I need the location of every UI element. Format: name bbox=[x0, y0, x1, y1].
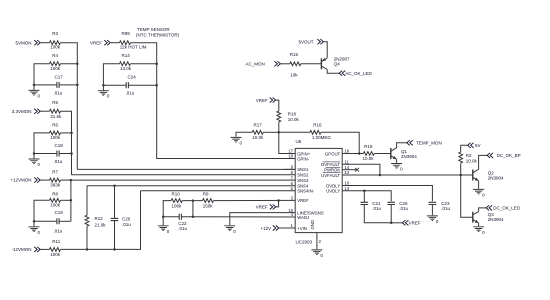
svg-text:VREF: VREF bbox=[90, 40, 102, 45]
node R4/C17/ground junction bbox=[33, 84, 36, 87]
svg-text:TEMP_MON: TEMP_MON bbox=[416, 141, 442, 146]
ground 5VMON block bbox=[29, 90, 40, 95]
transistor Q2 2N3904 bbox=[472, 170, 474, 181]
wire OVDLY pin 10 to C23 bbox=[342, 186, 432, 202]
wire C20 bottom bbox=[114, 221, 116, 250]
node GPOUT/R16/R19 bbox=[358, 152, 361, 155]
svg-text:R9: R9 bbox=[203, 191, 209, 196]
resistor R2 bbox=[459, 152, 463, 163]
svg-text:R12: R12 bbox=[95, 216, 104, 221]
node C17-rail bbox=[76, 84, 79, 87]
svg-text:10.0k: 10.0k bbox=[252, 135, 264, 140]
svg-text:R11: R11 bbox=[52, 239, 60, 244]
wire Q1 collector to TEMP_MON bbox=[397, 143, 407, 148]
ground NTC block bbox=[98, 91, 109, 96]
svg-text:R8: R8 bbox=[52, 192, 58, 197]
svg-text:AC_MON: AC_MON bbox=[246, 62, 265, 67]
svg-text:DC_OK_LED: DC_OK_LED bbox=[493, 206, 521, 211]
wire UVDLY pin 13 bbox=[342, 191, 391, 202]
wire GPOUT node to R19 bbox=[359, 153, 363, 155]
svg-text:.01u: .01u bbox=[54, 90, 63, 95]
ground +12VMON block bbox=[29, 227, 40, 232]
wire R4 left to ground corner bbox=[34, 64, 50, 85]
ground Q1 bbox=[391, 164, 402, 169]
resistor R4 bbox=[50, 62, 61, 66]
svg-text:.01u: .01u bbox=[126, 91, 135, 96]
capacitor C22 bbox=[179, 214, 181, 220]
wire C17 right bbox=[59, 84, 77, 86]
wire +12V to +VIN bbox=[279, 227, 295, 229]
svg-text:2N3904: 2N3904 bbox=[401, 154, 417, 159]
wire Q2 collector to DC_OK_BP bbox=[479, 155, 488, 169]
svg-text:.01u: .01u bbox=[372, 206, 381, 211]
svg-text:10k: 10k bbox=[290, 72, 298, 77]
resistor R8 bbox=[50, 198, 61, 202]
node R12 bottom bbox=[86, 248, 89, 251]
ground 3.3VMON block bbox=[29, 159, 40, 164]
svg-text:UC2903: UC2903 bbox=[296, 240, 313, 245]
svg-text:5V: 5V bbox=[475, 143, 481, 148]
wire C18 left bbox=[34, 153, 57, 155]
capacitor C18 bbox=[57, 151, 59, 157]
node VREF hook bbox=[277, 199, 280, 202]
wire SNS4IN- rail bbox=[141, 190, 296, 192]
wire +12VMON to R7 bbox=[40, 179, 49, 181]
node R10/R9 bbox=[192, 199, 195, 202]
svg-text:5VOUT: 5VOUT bbox=[298, 39, 313, 44]
wire GPOUT stub bbox=[342, 153, 359, 155]
wire 5VMON to R3 bbox=[40, 42, 49, 44]
wire R6 right bbox=[61, 132, 72, 134]
ground R10/C22 bbox=[158, 226, 169, 231]
wire -12VMON to R11 bbox=[40, 248, 49, 250]
wire R10 left down to ground bbox=[163, 201, 171, 226]
svg-text:10.0k: 10.0k bbox=[288, 117, 300, 122]
svg-text:AC_OK_LED: AC_OK_LED bbox=[345, 71, 372, 76]
wire WADJ rail right bbox=[181, 216, 295, 218]
svg-text:R14: R14 bbox=[122, 53, 131, 58]
svg-text:R15: R15 bbox=[290, 52, 299, 57]
node C22 left bbox=[162, 216, 165, 219]
svg-text:VREF: VREF bbox=[256, 98, 268, 103]
svg-text:+12V: +12V bbox=[261, 226, 272, 231]
svg-text:.01u: .01u bbox=[399, 206, 408, 211]
node R14/C24/ground junction bbox=[102, 84, 105, 87]
wire 5V to R2 bbox=[461, 145, 468, 152]
wire R14 left to ground corner bbox=[103, 64, 119, 85]
svg-text:SNS2: SNS2 bbox=[297, 173, 309, 178]
wire R12 bottom bbox=[86, 226, 88, 249]
resistor R18 bbox=[277, 111, 281, 122]
wire R16 to GPOUT node bbox=[321, 132, 359, 153]
wire R11 to SNS4IN- riser bbox=[61, 191, 141, 250]
wire C24 right bbox=[128, 84, 156, 86]
svg-text:100k: 100k bbox=[50, 135, 61, 140]
node OVFAULT/UVFAULT bbox=[379, 174, 382, 177]
wire C20 top bbox=[114, 186, 116, 219]
svg-text:WADJ: WADJ bbox=[297, 215, 309, 220]
wire Q4 collector to AC_OK_LED bbox=[327, 70, 339, 74]
svg-text:10.0k: 10.0k bbox=[363, 156, 375, 161]
svg-text:R6: R6 bbox=[52, 122, 58, 127]
wire VREF rail to port bbox=[391, 222, 402, 224]
wire C25 bottom bbox=[390, 205, 392, 223]
wire R17 right to junction bbox=[263, 131, 279, 133]
port AC_OK_LED bbox=[339, 71, 345, 76]
ground U6 bbox=[311, 250, 322, 255]
ground LINE/SWSNS bbox=[224, 226, 235, 231]
svg-text:GPOUT: GPOUT bbox=[325, 151, 341, 156]
svg-text:31.6k: 31.6k bbox=[50, 114, 62, 119]
svg-text:R16: R16 bbox=[313, 123, 322, 128]
node C20 bottom bbox=[113, 248, 116, 251]
svg-text:SNS3: SNS3 bbox=[297, 178, 309, 183]
svg-text:VREF: VREF bbox=[409, 221, 421, 226]
wire R7 to SNS3 rail / node R7 bbox=[61, 179, 71, 181]
wire UVFAULT pin 12 to Q2 base bbox=[342, 174, 473, 176]
resistor R14 bbox=[120, 62, 131, 66]
wire LINE/SWSNS to ground bbox=[230, 213, 295, 226]
node UVDLY/C21 bbox=[363, 189, 366, 192]
svg-text:13.0k: 13.0k bbox=[120, 66, 132, 71]
node R6-rail bbox=[70, 132, 73, 135]
port TEMP_MON bbox=[407, 140, 413, 145]
svg-text:12k HOT LIM: 12k HOT LIM bbox=[120, 45, 147, 50]
wire base rail down to Q3 bbox=[461, 175, 473, 217]
svg-text:Q4: Q4 bbox=[334, 61, 341, 66]
svg-text:.01u: .01u bbox=[122, 222, 131, 227]
resistor R12 bbox=[85, 215, 89, 226]
svg-text:.01u: .01u bbox=[54, 159, 63, 164]
wire C24 left bbox=[103, 84, 126, 86]
svg-text:U6: U6 bbox=[296, 139, 302, 144]
node R8-rail bbox=[70, 199, 73, 202]
svg-text:.01u: .01u bbox=[54, 228, 63, 233]
node junction-WADJ rail bbox=[192, 216, 195, 219]
svg-text:.01u: .01u bbox=[178, 226, 187, 231]
wire R7 node down to R8 bbox=[70, 180, 72, 200]
node R6/C18/ground junction bbox=[33, 152, 36, 155]
svg-text:(NTC THERMISTOR): (NTC THERMISTOR) bbox=[136, 33, 180, 38]
svg-text:R18: R18 bbox=[288, 111, 297, 116]
port DC_OK_LED bbox=[486, 205, 492, 210]
svg-text:C24: C24 bbox=[128, 75, 137, 80]
wire rail down to C19 bbox=[70, 200, 72, 221]
resistor R3 bbox=[50, 41, 61, 45]
svg-text:TEMP SENSOR: TEMP SENSOR bbox=[137, 27, 170, 32]
node C25-VREF rail bbox=[390, 222, 393, 225]
capacitor C25 bbox=[387, 202, 395, 204]
svg-text:2N3904: 2N3904 bbox=[488, 217, 504, 222]
wire R2 bottom to base rail bbox=[460, 163, 462, 175]
U6 bottom GND pin to ground bbox=[316, 233, 318, 250]
svg-text:100k: 100k bbox=[50, 252, 61, 257]
port 5V bbox=[468, 143, 474, 148]
capacitor C17 bbox=[57, 82, 59, 88]
wire Q2 emitter to ground bbox=[478, 181, 480, 189]
ground stem 3.3VMON block bbox=[33, 154, 35, 159]
svg-text:.01u: .01u bbox=[441, 206, 450, 211]
wire Q3 collector to DC_OK_LED bbox=[479, 208, 487, 212]
wire junction to R16 bbox=[279, 131, 310, 133]
svg-text:R4: R4 bbox=[52, 53, 58, 58]
resistor R7 bbox=[50, 178, 61, 182]
wire R14 right bbox=[131, 63, 157, 65]
svg-text:R19: R19 bbox=[364, 144, 373, 149]
svg-text:C20: C20 bbox=[122, 216, 131, 221]
wire R19 to Q1 base bbox=[374, 153, 391, 155]
wire C18 right bbox=[59, 153, 71, 155]
wire SNS4 rail bbox=[87, 185, 295, 187]
svg-text:SNS4IN-: SNS4IN- bbox=[297, 189, 315, 194]
svg-text:100k: 100k bbox=[50, 202, 61, 207]
node R8/C19/ground junction bbox=[33, 220, 36, 223]
capacitor C23 bbox=[429, 202, 437, 204]
svg-text:R2: R2 bbox=[466, 153, 472, 158]
svg-text:10.0k: 10.0k bbox=[466, 158, 478, 163]
wire Q1 emitter to ground bbox=[396, 159, 398, 163]
capacitor C20 bbox=[111, 218, 119, 220]
wire R12 top to SNS4 rail corner bbox=[86, 186, 88, 216]
capacitor C24 bbox=[126, 82, 128, 88]
svg-text:+12VMON: +12VMON bbox=[10, 178, 31, 183]
node R4-rail bbox=[76, 62, 79, 64]
node C20 top on SNS4 rail bbox=[113, 184, 116, 187]
ground C23 bbox=[427, 216, 438, 221]
svg-text:C18: C18 bbox=[55, 143, 64, 148]
svg-text:3.3VMON: 3.3VMON bbox=[12, 109, 32, 114]
svg-text:UVDLY: UVDLY bbox=[326, 189, 340, 194]
svg-text:21.0k: 21.0k bbox=[95, 222, 107, 227]
svg-text:GPIN-: GPIN- bbox=[297, 156, 310, 161]
port VREF (caps) bbox=[402, 220, 408, 225]
svg-text:12: 12 bbox=[345, 170, 350, 175]
svg-text:R7: R7 bbox=[52, 169, 58, 174]
svg-text:13: 13 bbox=[345, 186, 350, 191]
svg-text:C19: C19 bbox=[55, 210, 64, 215]
svg-text:GND: GND bbox=[310, 220, 315, 230]
IC U6 UC2903 body bbox=[295, 148, 342, 232]
capacitor C21 bbox=[361, 202, 369, 204]
wire AC_MON to R15 bbox=[280, 63, 289, 65]
ground Q2 bbox=[473, 189, 484, 194]
svg-text:R99: R99 bbox=[122, 31, 131, 36]
svg-text:PWROK: PWROK bbox=[324, 168, 340, 173]
svg-text:SNS1: SNS1 bbox=[297, 167, 309, 172]
svg-text:16: 16 bbox=[345, 149, 350, 154]
wire C19 right bbox=[59, 220, 71, 222]
svg-text:5VMON: 5VMON bbox=[15, 40, 31, 45]
svg-text:383k: 383k bbox=[50, 182, 61, 187]
wire VREF to R99 bbox=[110, 42, 119, 44]
wire WADJ rail left bbox=[163, 216, 179, 218]
svg-text:18: 18 bbox=[288, 154, 293, 159]
wire SNS2 rail bbox=[72, 174, 296, 176]
node C24-rail bbox=[155, 84, 158, 87]
resistor R9 bbox=[203, 199, 214, 203]
wire junction down to WADJ rail bbox=[192, 201, 194, 217]
svg-text:C17: C17 bbox=[55, 74, 64, 79]
svg-text:VREF: VREF bbox=[297, 198, 309, 203]
svg-text:R5: R5 bbox=[52, 100, 58, 105]
wire SNS1 rail bbox=[284, 168, 296, 170]
node R2 bottom bbox=[459, 174, 462, 177]
ground stem +12VMON block bbox=[33, 221, 35, 226]
svg-text:R17: R17 bbox=[254, 123, 263, 128]
svg-text:100k: 100k bbox=[172, 204, 183, 209]
transistor Q1 2N3904 bbox=[390, 148, 392, 159]
svg-text:OVFAULT: OVFAULT bbox=[321, 162, 341, 167]
node R17/R18/R16/GPIN+ bbox=[278, 131, 281, 134]
resistor R99 bbox=[120, 41, 131, 45]
resistor R10 bbox=[171, 199, 182, 203]
svg-text:-12VMON: -12VMON bbox=[11, 247, 31, 252]
resistor R11 bbox=[50, 248, 61, 252]
wire R8 right bbox=[61, 199, 71, 201]
wire R17 left to ground bbox=[236, 132, 252, 137]
svg-text:100k: 100k bbox=[50, 45, 61, 50]
svg-text:14: 14 bbox=[345, 165, 350, 170]
resistor R6 bbox=[50, 131, 61, 135]
wire VREF to R18 bbox=[276, 100, 279, 111]
wire OVFAULT pin 11 bbox=[342, 164, 380, 175]
resistor R15 bbox=[290, 62, 301, 66]
svg-text:R10: R10 bbox=[172, 191, 181, 196]
svg-text:2N3904: 2N3904 bbox=[488, 175, 504, 180]
ground stem 5VMON block bbox=[33, 85, 35, 90]
ground R17 bbox=[231, 137, 242, 142]
no-connect X on PWROK bbox=[355, 168, 359, 172]
wire R6 left to ground corner bbox=[34, 133, 50, 154]
wire R15 to Q4 base bbox=[301, 63, 322, 65]
wire C19 left bbox=[34, 220, 57, 222]
resistor R5 bbox=[50, 109, 61, 113]
svg-text:150k: 150k bbox=[203, 204, 214, 209]
capacitor C19 bbox=[57, 218, 59, 224]
wire C21 bottom to VREF rail bbox=[364, 205, 391, 223]
resistor R19 bbox=[363, 152, 374, 156]
svg-text:DC_OK_BP: DC_OK_BP bbox=[497, 153, 521, 158]
wire 5VOUT to Q4 emitter bbox=[323, 42, 327, 58]
wire R8 left to ground corner bbox=[34, 200, 50, 221]
wire 3.3VMON to R5 bbox=[40, 110, 49, 112]
wire VREF hook bbox=[276, 201, 279, 207]
ground Q3 bbox=[473, 227, 484, 232]
wire R18 to junction bbox=[278, 122, 280, 132]
svg-text:VREF: VREF bbox=[256, 205, 268, 210]
svg-text:R3: R3 bbox=[52, 31, 58, 36]
svg-text:UVFAULT: UVFAULT bbox=[321, 173, 340, 178]
svg-text:100k: 100k bbox=[50, 66, 61, 71]
wire Q3 emitter to ground bbox=[478, 223, 480, 226]
wire R99 to GPIN- rail bbox=[131, 43, 296, 159]
wire C23 bottom to ground bbox=[431, 205, 433, 216]
svg-text:11: 11 bbox=[345, 160, 350, 165]
wire PWROK pin 14 stub bbox=[342, 169, 356, 171]
wire C21 top bbox=[363, 191, 365, 203]
transistor Q3 2N3904 bbox=[472, 212, 474, 223]
svg-text:+VIN: +VIN bbox=[297, 226, 307, 231]
wire junction down to GPIN+ bbox=[279, 132, 295, 153]
wire R5 to SNS2 rail bbox=[61, 111, 72, 175]
resistor R16 bbox=[310, 130, 321, 134]
ground stem NTC block bbox=[102, 85, 104, 90]
wire R9 to VREF pin rail bbox=[214, 199, 296, 201]
node R14-rail bbox=[155, 62, 158, 64]
node C18-rail bbox=[70, 152, 73, 155]
wire R4 right bbox=[61, 63, 78, 65]
port DC_OK_BP bbox=[487, 153, 493, 158]
wire C17 left bbox=[34, 84, 57, 86]
transistor Q4 2N2907 (PNP) bbox=[320, 58, 322, 69]
wire R10-R9 junction bbox=[182, 200, 202, 202]
wire R3 to SNS1 rail bbox=[61, 43, 78, 170]
wire SNS3 rail bbox=[71, 179, 295, 181]
svg-text:1.00MEG: 1.00MEG bbox=[312, 135, 332, 140]
resistor R17 bbox=[252, 130, 263, 134]
